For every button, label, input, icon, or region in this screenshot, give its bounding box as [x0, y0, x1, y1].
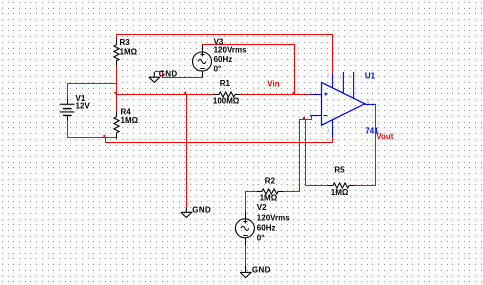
svg-text:0°: 0°: [214, 65, 222, 74]
svg-text:0°: 0°: [257, 233, 265, 242]
op-amp minus mark: [323, 115, 327, 117]
svg-text:V2: V2: [257, 203, 267, 212]
wire long bottom run to pin 4: [105, 142, 333, 143]
wire junction branch down: [105, 137, 106, 143]
op-amp pin 7 lead: [332, 74, 334, 88]
op-amp pin 5 lead: [353, 72, 355, 98]
wire Vin row right of R1: [240, 94, 311, 95]
svg-text:Vin: Vin: [267, 80, 279, 89]
svg-text:R2: R2: [265, 177, 276, 186]
wire V3 top horizontal: [202, 44, 295, 45]
wire V1 bottom vertical: [67, 120, 68, 137]
junction node V1 bottom / long run: [103, 135, 105, 137]
wire pin 7 drop: [332, 35, 333, 74]
wire V2 top vertical: [245, 192, 246, 212]
wire R5 left: [305, 185, 328, 186]
wire V3 drop to Vin row: [294, 45, 295, 94]
AC source V2 symbol: [235, 219, 254, 238]
wire to middle ground: [186, 95, 187, 208]
wire inverting input step down: [311, 115, 312, 120]
wire ground step horizontal: [155, 71, 163, 72]
wire Vin row left of R1: [116, 94, 214, 95]
wire R5 right to Vout column: [354, 185, 376, 186]
svg-text:R3: R3: [120, 38, 131, 47]
resistor R3 body: [114, 40, 119, 67]
V3 top lead: [202, 45, 203, 52]
svg-text:1MΩ: 1MΩ: [260, 194, 278, 203]
op-amp non-inverting input lead pin 3: [310, 94, 321, 96]
svg-text:U1: U1: [365, 72, 376, 81]
op-amp inverting input lead pin 2: [310, 115, 321, 117]
AC source V3 symbol: [193, 52, 212, 71]
junction node Vin row / V3 drop: [292, 92, 294, 94]
wire Vout column: [375, 104, 376, 185]
ground symbol middle: [181, 208, 192, 218]
wire R2 right: [283, 191, 300, 192]
resistor R4 body: [114, 112, 119, 139]
junction node inverting step / R5 branch: [303, 117, 305, 119]
junction node Vin row / ground column: [184, 92, 186, 95]
wire V1 bottom to R4: [67, 137, 117, 138]
wire R2 branch vertical: [299, 120, 300, 192]
resistor R2 body: [257, 189, 283, 194]
op-amp pin 1 lead: [342, 72, 344, 94]
resistor R5 body: [328, 183, 355, 188]
wire V1 top vertical: [67, 84, 68, 99]
svg-text:60Hz: 60Hz: [214, 55, 233, 64]
wire top rail from R3 top to op-amp pin 7: [116, 34, 333, 35]
ground symbol top (V3): [149, 72, 160, 83]
wire R3 top stub: [116, 35, 117, 40]
svg-text:60Hz: 60Hz: [257, 224, 276, 233]
ground symbol bottom (V2): [240, 266, 251, 278]
op-amp output lead pin 6: [365, 103, 376, 105]
V3 bottom lead: [202, 71, 203, 77]
wire between R3 and R4: [116, 67, 117, 112]
wire ground step vertical: [162, 71, 163, 77]
svg-text:GND: GND: [159, 70, 178, 79]
resistor R1 body: [214, 92, 240, 97]
svg-text:GND: GND: [252, 265, 271, 274]
wire V1 top horizontal: [67, 83, 117, 84]
svg-text:GND: GND: [192, 205, 211, 214]
svg-text:100MΩ: 100MΩ: [213, 97, 240, 106]
op-amp plus mark: [324, 92, 327, 95]
junction node R3R4 column / Vin row: [114, 92, 116, 94]
wire V2 bottom to ground: [245, 245, 246, 266]
op-amp pin 4 lead: [332, 119, 334, 137]
wire R2 left: [245, 191, 257, 192]
svg-text:R1: R1: [220, 79, 231, 88]
wire ground to V3 bottom: [162, 77, 203, 78]
svg-text:120Vrms: 120Vrms: [257, 214, 290, 223]
svg-text:1MΩ: 1MΩ: [121, 116, 139, 125]
V2 top lead: [245, 212, 246, 219]
svg-text:1MΩ: 1MΩ: [331, 188, 349, 197]
battery V1 symbol: [60, 99, 75, 121]
wire R5 branch vertical: [305, 120, 306, 185]
svg-text:Vout: Vout: [376, 132, 394, 141]
svg-text:120Vrms: 120Vrms: [214, 46, 247, 55]
svg-text:1MΩ: 1MΩ: [120, 48, 138, 57]
wire pin 4 stub: [332, 137, 333, 143]
wire inverting input step horizontal: [299, 119, 312, 120]
V2 bottom lead: [245, 238, 246, 245]
op-amp U1 triangle: [322, 82, 365, 125]
svg-text:12V: 12V: [76, 102, 91, 111]
svg-text:R5: R5: [334, 166, 345, 175]
